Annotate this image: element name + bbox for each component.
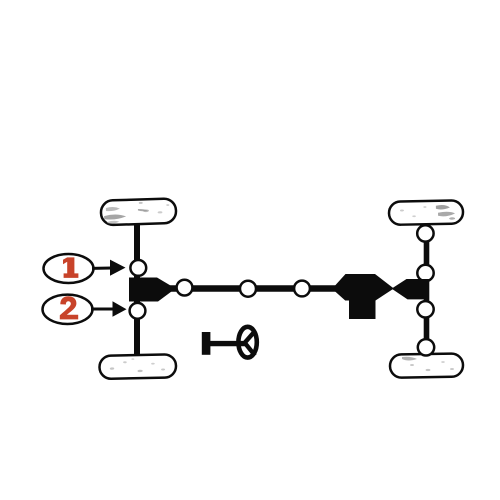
callout label 2 (red) <box>60 296 78 319</box>
joint circle D (right axle top) <box>417 225 433 241</box>
rear right tire texture <box>402 357 454 371</box>
wire: driveshaft horizontal <box>170 285 340 292</box>
CV joint circle 1 (left axle, upper) <box>130 260 146 276</box>
U-joint circle A (driveshaft left) <box>177 280 193 296</box>
joint circle G (right axle bottom) <box>418 339 434 355</box>
leader arrow 2 head <box>113 301 127 317</box>
wire: left axle vertical shaft <box>134 210 140 368</box>
front right tire <box>389 200 463 225</box>
front left tire <box>101 198 177 225</box>
rear differential (black, pointing left) <box>392 279 429 299</box>
rear right tire <box>390 353 463 377</box>
CV joint circle 2 (left axle, lower) <box>130 303 146 319</box>
steering wheel spoke upper-right <box>245 331 256 344</box>
steering column shaft <box>210 341 246 346</box>
U-joint circle B (driveshaft middle) <box>240 281 256 297</box>
steering wheel spoke lower-right <box>245 343 256 356</box>
rear left tire <box>99 354 176 379</box>
steering column base bar <box>202 332 211 355</box>
leader arrow 2 shaft <box>91 308 114 311</box>
steering wheel rim <box>238 327 256 358</box>
leader arrow 1 shaft <box>92 267 112 270</box>
callout balloon 2 <box>43 295 93 324</box>
wire: right axle vertical shaft <box>424 212 430 366</box>
callout label 1 (red) <box>63 257 78 278</box>
U-joint circle C (driveshaft right) <box>294 281 310 297</box>
joint circle E (right axle upper-middle) <box>417 265 433 281</box>
callout balloon 1 <box>44 254 94 283</box>
joint circle F (right axle lower-middle) <box>417 301 433 317</box>
leader arrow 1 head <box>110 260 126 276</box>
front differential (black, pointing right) <box>129 278 176 302</box>
transmission / transfer case <box>335 274 394 319</box>
